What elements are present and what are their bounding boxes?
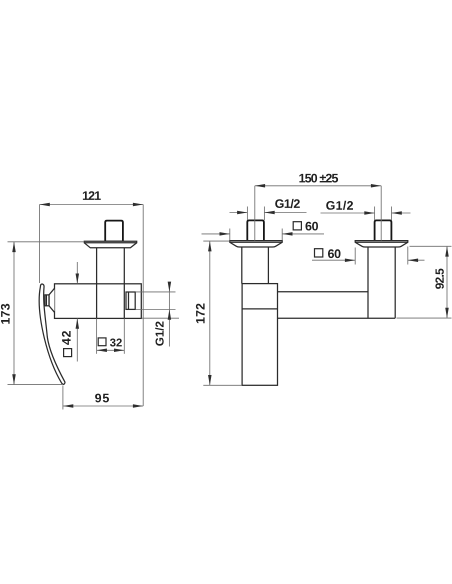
arrow 92.5 up bbox=[445, 246, 449, 256]
□60 right arrow shaft right bbox=[408, 259, 425, 261]
dimension 150 line bbox=[255, 185, 381, 187]
arrow 92.5 down bbox=[445, 308, 449, 318]
arrow G1/2 right a bbox=[364, 211, 374, 215]
arrow □60 left a bbox=[220, 232, 230, 236]
label 95 bbox=[95, 394, 109, 403]
left flange (front) bbox=[230, 241, 282, 247]
label 60 lower bbox=[328, 249, 341, 258]
right inlet pipe left edge bbox=[367, 247, 369, 318]
square symbol 60 lower bbox=[315, 249, 323, 257]
arrow 150 right bbox=[371, 184, 381, 188]
handle spool hub bbox=[45, 295, 49, 306]
dimension 121 line bbox=[40, 204, 144, 206]
arrow 121 right bbox=[133, 203, 143, 207]
G1/2 right arrow shaft right bbox=[392, 212, 411, 214]
extension G1/2 left knob a bbox=[246, 207, 248, 221]
extension □60 left flange a bbox=[229, 229, 231, 241]
left inlet pipe right edge bbox=[267, 247, 269, 284]
extension 95 left bbox=[62, 386, 64, 410]
extension outlet top bbox=[136, 291, 176, 293]
flange inner line bbox=[84, 242, 136, 244]
arrow G1/2 left b bbox=[264, 211, 274, 215]
G1/2 right arrow shaft left bbox=[321, 212, 375, 214]
square symbol 32 bbox=[98, 338, 106, 346]
label G1/2 right bbox=[326, 201, 353, 210]
horizontal body tube top bbox=[278, 291, 369, 293]
knob / stem (side view) bbox=[105, 221, 123, 242]
cartridge column right edge through body bbox=[123, 248, 125, 319]
extension 32 right bbox=[123, 318, 125, 353]
handle cone adapter bbox=[49, 288, 55, 312]
□60 left arrow shaft right bbox=[282, 233, 324, 235]
left flange inner line bbox=[230, 241, 282, 243]
extension G1/2 left knob b bbox=[263, 207, 265, 221]
horizontal body tube bottom bbox=[278, 317, 396, 319]
extension 173 bottom bbox=[8, 384, 63, 386]
valve block (front) bbox=[242, 284, 277, 386]
extension 172 top bbox=[203, 240, 229, 242]
label 32 bbox=[110, 339, 122, 347]
dimension 173 line bbox=[13, 242, 15, 385]
valve body (side view) bbox=[55, 284, 142, 319]
right flange (front) bbox=[355, 241, 408, 247]
□60 right arrow shaft left bbox=[312, 259, 355, 261]
arrow outlet bottom (up) bbox=[168, 310, 172, 320]
extension 173 top bbox=[8, 241, 85, 243]
extension line 121 left bbox=[39, 205, 41, 284]
arrow 42 down bbox=[76, 274, 80, 284]
right inlet pipe right edge bbox=[394, 247, 396, 318]
arrow outlet top (down) bbox=[168, 282, 172, 292]
G1/2 left arrow shaft left bbox=[230, 212, 248, 214]
extension □60 right flange b bbox=[407, 247, 409, 265]
extension 92.5 top bbox=[410, 245, 452, 247]
valve block joint line bbox=[242, 308, 277, 310]
extension outlet bottom bbox=[136, 309, 176, 311]
square symbol 60 upper bbox=[293, 222, 301, 230]
arrow 173 up bbox=[12, 242, 16, 252]
arrow G1/2 left a bbox=[237, 211, 247, 215]
arrow G1/2 right b bbox=[392, 211, 402, 215]
extension 150 right (through knob) bbox=[380, 186, 382, 241]
arrow 95 left bbox=[63, 404, 73, 408]
label 60 upper bbox=[306, 222, 319, 231]
arrow 172 down bbox=[208, 375, 212, 385]
extension G1/2 right knob b bbox=[391, 207, 393, 221]
outlet port G1/2 (side view) bbox=[126, 292, 135, 309]
label 121 bbox=[83, 191, 101, 200]
dimension G1/2 outlet line bbox=[168, 283, 170, 347]
square symbol 42 bbox=[64, 349, 72, 357]
arrow □60 right a bbox=[345, 258, 355, 262]
dimension 172 line bbox=[209, 241, 211, 385]
arrow 32 left bbox=[97, 349, 107, 353]
extension G1/2 right knob a bbox=[374, 207, 376, 221]
right flange inner line bbox=[355, 241, 408, 243]
arrow 173 down bbox=[12, 374, 16, 384]
arrow 95 right bbox=[133, 404, 143, 408]
outlet inner edge bbox=[128, 292, 130, 309]
extension line right (shared 121/95) bbox=[142, 205, 144, 407]
flange escutcheon (side view) bbox=[84, 241, 136, 248]
dimension 32 line bbox=[97, 349, 125, 351]
arrow 172 up bbox=[208, 241, 212, 251]
left inlet pipe left edge bbox=[241, 247, 243, 284]
extension 32 left bbox=[96, 318, 98, 353]
dimension 95 line bbox=[63, 405, 143, 407]
extension □60 left flange b bbox=[281, 229, 283, 241]
dimension 42 lower shaft bbox=[76, 318, 78, 361]
extension body bottom right bbox=[142, 317, 180, 319]
handle lever (side view) bbox=[39, 284, 65, 384]
arrow 121 left bbox=[40, 203, 50, 207]
spool inner line bbox=[45, 295, 47, 306]
label 150 ±25 bbox=[299, 174, 338, 183]
arrow 150 left bbox=[255, 184, 265, 188]
arrow 42 up bbox=[76, 318, 80, 328]
right inlet knob bbox=[375, 220, 392, 241]
label 42 (rotated) bbox=[62, 331, 71, 345]
arrow □60 right b bbox=[408, 258, 418, 262]
left inlet knob bbox=[247, 220, 264, 241]
label G1/2 outlet (rotated) bbox=[155, 322, 164, 346]
extension 150 left (through knob) bbox=[254, 186, 256, 241]
dimension 42 upper shaft bbox=[76, 262, 78, 284]
label 92.5 (rotated) bbox=[435, 269, 443, 289]
extension 172 bottom bbox=[203, 384, 242, 386]
label 172 (rotated) bbox=[196, 304, 205, 324]
extension □60 right flange a bbox=[354, 248, 356, 265]
□60 left arrow shaft left bbox=[202, 233, 230, 235]
label 173 (rotated) bbox=[1, 304, 10, 324]
arrow □60 left b bbox=[282, 232, 292, 236]
label G1/2 left bbox=[275, 199, 300, 208]
G1/2 left arrow shaft right bbox=[264, 212, 306, 214]
dimension 92.5 line bbox=[446, 246, 448, 318]
arrow 32 right bbox=[114, 349, 124, 353]
cartridge column left edge through body bbox=[96, 248, 98, 319]
extension 92.5 bottom bbox=[397, 317, 452, 319]
